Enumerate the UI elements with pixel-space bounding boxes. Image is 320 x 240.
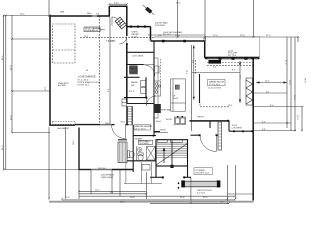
svg-text:W.I.C.: W.I.C. [121, 122, 127, 124]
wall patio left x229 [228, 121, 230, 132]
dim ext top x177.7 [177, 0, 179, 37]
arrowheads dim x240 [239, 62, 241, 65]
garage door panel dashed [53, 121, 76, 124]
svg-text:PLATE ABOUT 12": PLATE ABOUT 12" [85, 29, 102, 32]
svg-text:8'-0: 8'-0 [45, 87, 47, 90]
beam line great room y72.5 [192, 72, 240, 74]
fridge box [155, 66, 160, 73]
dim right y82.5 [256, 82, 287, 84]
dim line top garage [4, 15, 50, 17]
fireplace dark [209, 60, 222, 64]
wall entry y120.5 double [190, 120, 230, 122]
svg-text:GREAT ROOM: GREAT ROOM [209, 80, 224, 83]
svg-text:6'-8: 6'-8 [262, 129, 265, 131]
dim line top bumpout [109, 3, 127, 5]
wall nook bottom y131.5 [154, 131, 160, 133]
cooktop rect [154, 81, 161, 96]
dim ext x49 bottom [48, 127, 50, 199]
wall corner x204.7 down [204, 40, 206, 57]
wall x127 upper [126, 6, 128, 36]
bath label box [138, 140, 152, 144]
dim right y130.5 [254, 130, 296, 132]
svg-text:ACCESS: ACCESS [58, 84, 67, 87]
wall y77.3 [124, 76, 140, 78]
upper cab dashed [159, 59, 161, 80]
stair center rail [171, 141, 173, 167]
porch band end columns [181, 180, 185, 187]
wall right corner piece [258, 57, 260, 59]
wall garage front y125 right + master top [75, 124, 100, 126]
jamb bath top wall [153, 135, 155, 137]
wall bath bottom y160.8 [127, 160, 156, 162]
wall garage top [49, 15, 92, 17]
window band great room top [207, 57, 259, 59]
svg-text:FRONT PORCH: FRONT PORCH [197, 190, 212, 192]
wall closet right x132.2 [131, 106, 133, 125]
svg-text:1 CAR GARAGE: 1 CAR GARAGE [78, 76, 96, 79]
svg-text:NOOK: NOOK [160, 130, 166, 132]
plate line above kitchen wall [148, 34, 205, 36]
dashed garage storage rect [53, 24, 76, 63]
up arrowhead [163, 148, 166, 151]
dashed ceiling foyer [200, 106, 229, 108]
newel post dark [170, 165, 173, 168]
wall foyer y135.5 right [216, 134, 218, 136]
svg-text:10'-0: 10'-0 [73, 141, 75, 145]
dim kitchen v x191.5 [191, 45, 193, 131]
nook bottom thin [154, 132, 168, 134]
svg-text:PLT 12'-0: PLT 12'-0 [228, 55, 236, 57]
jambs on wall y41 [162, 40, 165, 43]
wall bumpout left [108, 6, 110, 16]
svg-text:17'-2 x 19'-0: 17'-2 x 19'-0 [209, 84, 221, 86]
linen shelves [130, 66, 137, 73]
dim right y106.5 [254, 106, 304, 108]
dim bottom y193.8 [79, 193, 147, 195]
dashed garage storage divider [53, 49, 76, 51]
svg-text:PLT HT 10'-1: PLT HT 10'-1 [78, 85, 90, 87]
wing divider v2 [141, 162, 143, 184]
wall laundry bottom y97.6 [124, 97, 147, 99]
wall garage top right of window [97, 15, 110, 17]
arrowheads dim y82.5 right [257, 81, 260, 83]
svg-text:PLT 10'-1: PLT 10'-1 [163, 34, 171, 36]
jambs patio wall windows [233, 130, 235, 132]
window master top [100, 123, 112, 125]
wall foyer right x210 [209, 121, 211, 129]
svg-text:5'-0: 5'-0 [203, 40, 206, 42]
stair outline [156, 140, 188, 166]
svg-text:M.BATH: M.BATH [135, 138, 143, 141]
jamb laundry door [146, 97, 148, 99]
dim right v1 [286, 37, 288, 128]
wall hall x127 lower [126, 106, 128, 125]
dim ext x146.5 bottom [146, 172, 148, 199]
dim bottom y198.8 [62, 199, 235, 201]
wall linen y64.5 [127, 64, 144, 66]
faucet dots at island sink [177, 116, 179, 117]
dim right v3 [294, 37, 296, 131]
stair diagonal break [156, 143, 187, 164]
svg-text:13'-0 x 16'-0: 13'-0 x 16'-0 [135, 129, 145, 131]
wall bumpout top [109, 5, 127, 7]
svg-text:5050 SH: 5050 SH [98, 168, 106, 170]
svg-text:9'-1 PL: 9'-1 PL [108, 41, 114, 43]
mullion diamonds [219, 57, 222, 60]
svg-text:36x48: 36x48 [132, 37, 138, 39]
eave tick hatches along dashed garage line [99, 19, 101, 119]
door bumpout: leaf + arc [111, 17, 113, 26]
label stoop box [194, 168, 213, 175]
toilet2 [138, 153, 143, 156]
dim bottom y203 [150, 203, 229, 205]
wall y52.3 mud top [127, 51, 154, 53]
svg-text:5050: 5050 [105, 123, 109, 125]
wall closet top y139.8 [118, 139, 127, 141]
range dark [154, 104, 161, 113]
wall pantry top y26.5 [127, 26, 151, 28]
dim right v2 [290, 37, 292, 131]
wall master top right of window [112, 124, 115, 126]
dim ext x65.5 [65, 127, 67, 199]
wall top y40.5 kitchen/casita [151, 40, 205, 42]
svg-text:12'-0 CLG TILE: 12'-0 CLG TILE [208, 88, 222, 90]
section cut marker near garage top right [142, 4, 156, 16]
stair treads [156, 142, 188, 144]
island inner line2 [171, 102, 186, 104]
dim line bottom y169 [4, 169, 79, 171]
wall master left x79 [78, 128, 80, 171]
built-in rect [246, 78, 253, 105]
dim line garage y132 [12, 132, 50, 134]
svg-text:SLOPE SLAB TO DOOR: SLOPE SLAB TO DOOR [78, 81, 101, 84]
svg-text:6'-0 CLG: 6'-0 CLG [197, 193, 205, 195]
svg-text:17'-2: 17'-2 [238, 75, 240, 79]
dim bottom y196.2 [79, 195, 235, 197]
sink at island [175, 117, 186, 125]
island prep sink [175, 85, 179, 89]
wall half-wall kitchen x199.5 [199, 74, 201, 103]
dim right v4 [301, 107, 303, 132]
label great room box [208, 80, 226, 86]
window lines y120.7 [190, 121, 230, 123]
svg-text:10x11: 10x11 [156, 121, 161, 123]
wall garage left [49, 15, 51, 125]
porch steps hatch [184, 181, 219, 187]
divider wall sink/toilet [135, 146, 137, 161]
svg-text:8'-2: 8'-2 [232, 70, 235, 72]
svg-text:42" HIGH WALL: 42" HIGH WALL [158, 109, 172, 112]
island outline [171, 79, 186, 111]
wall porch top left y177.3 [150, 176, 163, 178]
wall x127 mid [126, 44, 128, 104]
arrowheads dim x193.8 [193, 46, 195, 49]
dim ext top x205 [204, 0, 206, 40]
dim line left v2 [5, 15, 7, 170]
ceiling rect skylight [205, 37, 259, 57]
wing bottom line [124, 183, 162, 185]
wall garage front y125 left [49, 124, 75, 126]
dim ext top x253.5 [253, 0, 255, 37]
zigzag [246, 80, 253, 104]
wall master bottom right part [112, 169, 133, 171]
linen hatch band [128, 107, 132, 125]
svg-text:ENTRY: ENTRY [198, 117, 205, 119]
arrowheads porch dim [178, 182, 180, 185]
svg-text:3'-0: 3'-0 [108, 89, 110, 92]
island inner line [172, 79, 174, 111]
niche band [218, 122, 222, 150]
wall stair left lower x156 [155, 166, 157, 177]
svg-text:COVERED: COVERED [195, 170, 205, 172]
svg-text:LAUND: LAUND [131, 81, 138, 84]
svg-text:16x8 GAR DR: 16x8 GAR DR [57, 127, 70, 130]
wall stair right lower x187.5 [187, 166, 189, 177]
dim ext master bottom verticals [78, 170, 80, 199]
svg-text:R-19 INSUL: R-19 INSUL [155, 25, 165, 27]
wing divider v1 [125, 162, 127, 184]
wall great room right x253 [252, 58, 254, 201]
dashed roof lines below great room windows [207, 62, 253, 64]
label drop garage plate box [84, 27, 105, 32]
label master box [134, 124, 152, 130]
dim ext x49 top [48, 0, 50, 16]
svg-text:PLT 8: PLT 8 [129, 91, 134, 93]
dim line y37 long [154, 36, 298, 38]
dashed plate line y37.2 garage [80, 36, 154, 38]
wall great room top y57.8 [205, 57, 259, 59]
stair top label boxes [158, 140, 183, 143]
svg-text:13'-2: 13'-2 [185, 70, 187, 74]
wall kitchen left x154 [153, 41, 155, 136]
washer dryer [141, 81, 146, 87]
sink circle [138, 147, 142, 151]
wall pantry right x150.5 [150, 27, 152, 41]
wall patio top y131 [229, 130, 253, 132]
wall porch top right y177.3 [184, 176, 191, 178]
door laundry arc [147, 96, 157, 106]
door mud arc [144, 65, 155, 76]
svg-text:12'-2: 12'-2 [84, 36, 88, 38]
window garage top [92, 15, 97, 17]
dim great room v x240 [239, 61, 241, 103]
svg-text:6'-0: 6'-0 [262, 121, 265, 123]
wing divider v3 [150, 162, 152, 184]
dim line garage y91 [12, 90, 50, 92]
svg-text:COV PATIO: COV PATIO [232, 127, 243, 130]
wall master top at hall [126, 124, 129, 126]
up arrow [163, 149, 165, 163]
svg-text:5x8 COATS: 5x8 COATS [133, 55, 144, 58]
svg-text:5'-0: 5'-0 [213, 67, 216, 69]
window master bottom [91, 168, 112, 170]
dim right y93 [254, 92, 287, 94]
svg-text:STOOP 8' CLG: STOOP 8' CLG [195, 173, 209, 175]
wc niche rect [142, 165, 150, 171]
dim right y123 [254, 122, 291, 124]
water heater angled rect [115, 17, 126, 29]
svg-text:10x13: 10x13 [173, 98, 179, 100]
svg-text:NOOK: NOOK [166, 119, 173, 121]
door pantry hall arc [119, 37, 127, 45]
wall master bottom y169.5 [79, 169, 92, 171]
wall y103.5 hall top [127, 103, 154, 105]
svg-text:3040: 3040 [87, 13, 91, 15]
dim ext x190.9 bottom [190, 177, 192, 203]
jambs entry door [199, 134, 201, 136]
wall bath x133 [132, 125, 134, 172]
closet rod hatch [118, 142, 127, 163]
door entry arc [215, 135, 217, 151]
dashed kitchen x195.4 [194, 60, 196, 74]
svg-text:2'-8: 2'-8 [96, 14, 99, 16]
toilet tank [127, 151, 129, 158]
svg-text:9'-2: 9'-2 [266, 91, 269, 93]
dim kitchen v x193.8 [193, 45, 195, 100]
dim ext x298 [297, 37, 299, 42]
dim line left v1 [3, 15, 5, 170]
laundry sink dark [130, 66, 138, 74]
jamb end of gallery wall [227, 120, 229, 122]
door master arc [125, 125, 127, 139]
dim mud hall x110 [109, 17, 111, 124]
counter edge left [157, 58, 159, 118]
dim ext x227.4 bottom [226, 165, 228, 204]
shower with X [147, 147, 156, 161]
jambs great room wall ends [205, 57, 207, 59]
dim line garage y39 [12, 38, 49, 40]
wall bath top y135.6 [133, 135, 156, 137]
mud bench [122, 99, 127, 106]
dim line left v3 [11, 15, 13, 133]
wall foyer y135.5 left [191, 134, 201, 136]
dim bottom right y194 [228, 193, 254, 195]
dim bottom y191.3 [79, 190, 146, 192]
wall x146.5 laundry right [145, 77, 147, 97]
jambs porch wall opening [162, 176, 164, 178]
svg-text:3068: 3068 [60, 12, 64, 14]
toilet bowl [129, 151, 134, 158]
svg-text:9'-0: 9'-0 [191, 60, 193, 63]
dashed roofline x99.5 garage [99, 16, 101, 125]
dim ext x235.3 bottom [234, 165, 236, 199]
jambs on pantry wall y26.6 [130, 26, 132, 28]
svg-text:TILE SHWR: TILE SHWR [139, 143, 149, 145]
burner circles [155, 83, 158, 86]
svg-text:TEMP GLASS: TEMP GLASS [101, 176, 114, 179]
